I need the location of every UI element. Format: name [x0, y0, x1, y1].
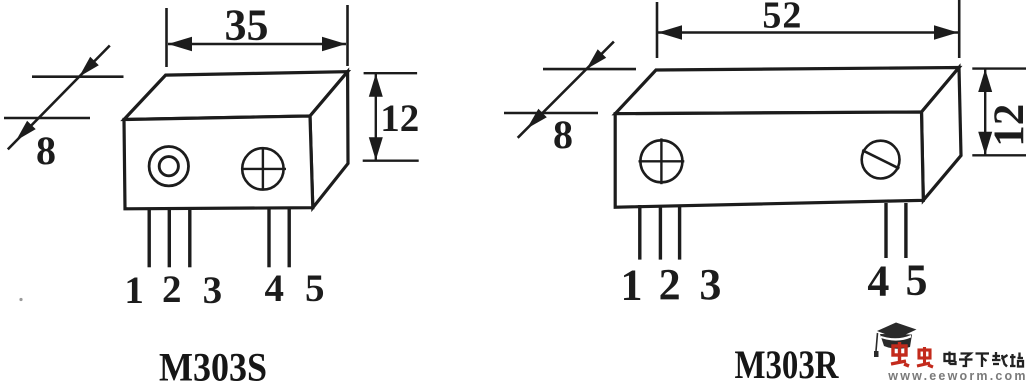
svg-text:2: 2 [659, 260, 681, 309]
pin 4 lead (M303R) [884, 203, 887, 258]
svg-text:8: 8 [36, 128, 56, 173]
adjuster screw (cross slot): circle [242, 148, 283, 189]
logo: bug character 1 (虫) [891, 342, 909, 366]
dimension 35: right arrowhead [322, 37, 346, 51]
svg-text:35: 35 [225, 1, 269, 50]
svg-text:1: 1 [621, 261, 643, 310]
package body M303S: top face [124, 72, 348, 120]
logo: bug character 2 (虫) [917, 347, 933, 367]
dimension 52: right extension line [958, 0, 961, 58]
svg-text:1: 1 [124, 269, 144, 312]
svg-text:52: 52 [762, 0, 802, 37]
pilot hole (concentric circles): inner [159, 157, 178, 176]
子 [959, 354, 973, 367]
logo: site name 电子下载站 (approximated glyph strokes) [945, 352, 1024, 368]
pin 5 lead (M303S) [288, 209, 291, 267]
dimension 35: right extension line [346, 5, 349, 66]
dimension 35: dimension line [168, 43, 346, 45]
dimension 12 (left): top tick line [364, 72, 418, 74]
dimension 35: left arrowhead [168, 37, 192, 51]
adjuster screw (M303R): vertical slot line [660, 138, 662, 184]
dimension 12 (right): down arrowhead [978, 132, 992, 155]
thickness symbol 8 (right): lower arrowhead [527, 109, 547, 129]
adjuster screw (cross slot, M303R): circle [640, 140, 682, 182]
package body M303R: top face [615, 68, 959, 114]
dimension 52: right arrowhead [934, 25, 958, 39]
adjuster screw: horizontal slot line [243, 168, 286, 170]
dimension 52: left extension line [656, 2, 659, 58]
svg-text:4: 4 [264, 267, 284, 310]
logo: tassel end [874, 351, 879, 357]
下 [976, 354, 990, 368]
pin 3 lead (M303S) [188, 209, 191, 267]
thickness symbol 8 (left): upper line [32, 75, 124, 78]
slotted screw (M303R): circle [862, 141, 900, 179]
thickness symbol 8 (right): lower line [504, 112, 598, 115]
dimension 12 (left): vertical dimension line [375, 74, 377, 160]
thickness symbol 8 (left): lower line [4, 117, 90, 120]
adjuster screw: vertical slot line [262, 148, 264, 190]
package body M303R: front face [615, 112, 923, 207]
slotted screw (M303R): diagonal slot line [862, 150, 899, 168]
svg-text:5: 5 [305, 267, 325, 310]
dimension 12 (left): up arrowhead [369, 74, 383, 97]
dimension 12 (right): bottom tick line [972, 154, 1026, 156]
dimension 12 (right): up arrowhead [978, 69, 992, 92]
thickness symbol 8 (left): diagonal leader [8, 46, 110, 150]
pin 3 lead (M303R) [678, 205, 681, 260]
pin 2 lead (M303R) [659, 205, 662, 260]
thickness symbol 8 (right): upper arrowhead [586, 49, 606, 69]
logo: graduation cap body [880, 334, 912, 349]
thickness symbol 8 (left): upper arrowhead [79, 57, 99, 77]
svg-text:2: 2 [162, 268, 182, 311]
svg-text:5: 5 [906, 256, 928, 305]
站 [1010, 353, 1023, 367]
package body M303S: right side face [310, 72, 348, 208]
scan speck artifact [19, 298, 22, 301]
pin 1 lead (M303R) [638, 205, 641, 260]
thickness symbol 8 (right): upper line [543, 68, 636, 71]
dimension 52: dimension line [658, 31, 958, 33]
dimension 12 (right): top tick line [972, 67, 1026, 69]
svg-text:8: 8 [553, 112, 573, 157]
svg-text:3: 3 [203, 269, 223, 312]
logo: graduation cap board [877, 323, 917, 339]
pin 2 lead (M303S) [168, 209, 171, 267]
载 [992, 352, 1008, 367]
svg-text:12: 12 [380, 97, 419, 140]
pin 5 lead (M303R) [904, 203, 907, 258]
thickness symbol 8 (left): lower arrowhead [16, 121, 36, 141]
logo: cap white crescent [881, 335, 911, 341]
svg-text:3: 3 [699, 260, 721, 309]
dimension 52: left arrowhead [658, 25, 682, 39]
svg-text:M303S: M303S [159, 345, 267, 383]
dimension 12 (right): vertical dimension line [984, 69, 986, 155]
电 [945, 352, 956, 365]
svg-text:12: 12 [986, 104, 1026, 147]
svg-text:4: 4 [867, 257, 889, 306]
svg-text:www.eeworm.com: www.eeworm.com [887, 369, 1026, 382]
package body M303S: front face [124, 116, 313, 209]
adjuster screw (M303R): horizontal slot line [639, 160, 685, 162]
pin 1 lead (M303S) [147, 209, 150, 267]
thickness symbol 8 (right): diagonal leader [518, 42, 614, 138]
dimension 12 (left): down arrowhead [369, 137, 383, 160]
logo: tassel cord [876, 333, 878, 351]
package body M303R: right side face [922, 68, 962, 201]
dimension 12 (left): bottom tick line [363, 159, 419, 161]
dimension 35: left extension line [165, 8, 168, 67]
pin 4 lead (M303S) [267, 209, 270, 267]
svg-text:M303R: M303R [735, 342, 840, 382]
pilot hole (concentric circles): outer [149, 147, 188, 186]
